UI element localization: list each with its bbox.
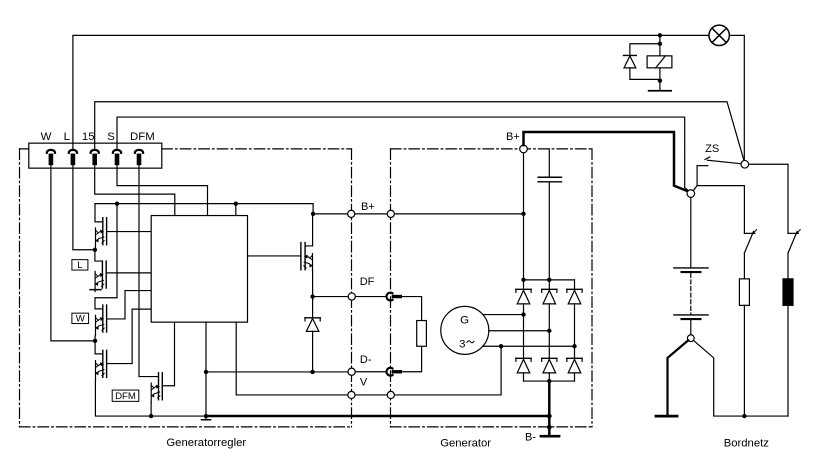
wire switch contact to battery node xyxy=(693,166,697,191)
svg-text:V: V xyxy=(360,377,368,389)
connector plug DF generator xyxy=(355,293,421,321)
svg-text:15: 15 xyxy=(82,131,95,143)
diode rectifier lower 1 xyxy=(516,315,531,382)
svg-text:Generatorregler: Generatorregler xyxy=(166,437,246,449)
Generatorregler dash-dot boundary box xyxy=(20,149,352,427)
node junction B+ rail / Q6 drain xyxy=(311,212,315,216)
wire load1 to return rail xyxy=(743,305,745,416)
battery G1 xyxy=(674,197,708,334)
terminal circle DF xyxy=(348,293,355,300)
svg-text:Bordnetz: Bordnetz xyxy=(724,438,770,450)
wire internal supply rail y203 xyxy=(95,204,313,214)
load2 block xyxy=(783,279,793,306)
node junction B- rail cross xyxy=(547,414,552,419)
node junction phase3 col3 xyxy=(572,344,576,348)
node junction bus col1 xyxy=(521,278,525,282)
resistor load1 xyxy=(739,279,749,306)
wire L terminal down to Q1 source node xyxy=(73,165,95,250)
wire Q6 drain up to B+ node xyxy=(305,214,313,246)
terminal circle D- xyxy=(348,368,355,375)
node junction star point V tap xyxy=(499,344,503,348)
terminal plug 15 xyxy=(91,150,99,165)
node junction minus bus B- drop xyxy=(547,379,551,383)
terminal circle B+ generator top xyxy=(520,145,528,153)
diode rectifier lower 2 xyxy=(542,331,557,381)
wire Q4 source down to ground rail xyxy=(95,381,206,416)
wire Q5 source down to rail xyxy=(150,403,152,416)
diode V1 across relay coil xyxy=(624,44,660,80)
svg-text:B+: B+ xyxy=(361,201,375,213)
generator G with 3~ xyxy=(441,306,489,354)
wire rail to Q1 gate xyxy=(95,204,103,222)
diode rectifier upper 1 xyxy=(516,280,531,315)
node junction rail-IC pin xyxy=(234,201,238,205)
switch load1 xyxy=(744,230,756,279)
svg-text:B+: B+ xyxy=(506,131,520,143)
node junction diode branch xyxy=(658,42,662,46)
terminal circle V generator border xyxy=(387,391,394,398)
ground stub IC pin xyxy=(202,419,211,421)
ground rail thick D- to B- xyxy=(206,415,549,418)
transistor Q2 (lamp driver) xyxy=(95,261,107,292)
terminal plug W xyxy=(47,150,55,165)
relay coil K xyxy=(647,56,672,68)
wire battery rail to load1 xyxy=(697,186,744,234)
wire IC V pin down and right to V terminal xyxy=(236,322,501,395)
wire IC ground pin down through D- to rail xyxy=(205,322,207,419)
indicator lamp H1 xyxy=(709,25,729,45)
wire 15 terminal down to IC pin xyxy=(95,165,175,215)
node junction relay top xyxy=(658,33,662,37)
ground symbol battery xyxy=(656,415,677,418)
node junction load1 return xyxy=(742,414,746,418)
boxed label L xyxy=(72,260,88,271)
node junction IC pin / D- line xyxy=(204,370,208,374)
svg-text:W: W xyxy=(41,131,52,143)
diode rectifier lower 3 xyxy=(567,346,582,381)
wire W terminal down to Q4 source node xyxy=(51,165,95,341)
wire Q1 source node to Q2 gate xyxy=(95,250,103,261)
wire S terminal up loop down right side xyxy=(117,117,689,191)
wire IC gate-drive pin to Q6 gate xyxy=(248,255,301,257)
node junction IC pin / ground rail xyxy=(204,414,208,418)
terminal circle V regulator border xyxy=(348,391,355,398)
node junction phase1 col1 xyxy=(521,312,525,316)
wire rectifier minus bus xyxy=(524,380,575,382)
wire W node to Q4 gate xyxy=(95,341,103,354)
svg-text:L: L xyxy=(77,260,83,271)
wire DFM terminal down to Q5 gate xyxy=(139,165,159,376)
wire B+ vertical inside generator xyxy=(523,153,525,280)
svg-text:DFM: DFM xyxy=(115,391,136,402)
node junction L wire / Q1 source xyxy=(93,248,97,252)
wire S terminal down to IC pin xyxy=(117,165,208,215)
terminal circle B+ regulator border xyxy=(348,210,355,217)
wire B+ thick feed to battery node xyxy=(524,132,689,192)
transistor Q3 (W driver upper) xyxy=(95,305,107,336)
wire stator phase 2 xyxy=(489,330,550,332)
svg-text:D-: D- xyxy=(360,354,372,366)
node junction DF / diode xyxy=(310,294,314,298)
resistor field winding rotor xyxy=(417,321,427,347)
wire L terminal up and over to lamp/relay node xyxy=(73,35,709,148)
transistor Q4 (W driver lower) xyxy=(95,350,107,381)
wire 15 terminal up loop to ZS switch node xyxy=(95,102,744,161)
node junction bus col2 xyxy=(547,278,551,282)
node junction diode / D- line xyxy=(310,370,314,374)
diode V2 freewheel DF to D- xyxy=(305,297,320,372)
wire lamp right lead down to ZS node xyxy=(729,35,744,160)
wire Q6 source down to DF node xyxy=(312,271,314,297)
node junction Q5 source on rail xyxy=(149,414,153,418)
terminal plug DFM xyxy=(135,150,143,165)
wire DF node to DF terminal xyxy=(313,296,352,298)
boxed label DFM xyxy=(112,390,139,402)
ground stub Q2 source xyxy=(90,289,101,291)
node junction phase2 col2 xyxy=(547,329,551,333)
transistor Q1 (L driver) xyxy=(95,218,107,249)
wire Q5 drain up to IC pin xyxy=(162,322,174,386)
terminal plug L xyxy=(69,150,77,165)
op-amp U1 regulator IC box xyxy=(151,216,247,323)
node junction rail-Q1drain branch xyxy=(115,201,119,205)
capacitor C1 suppression xyxy=(538,149,561,280)
connector plug D- generator xyxy=(355,346,421,375)
wire relay branch vertical xyxy=(659,35,661,56)
diode rectifier upper 3 xyxy=(567,280,582,346)
wire Q2 drain to IC xyxy=(107,272,151,274)
wire Q4 drain to IC xyxy=(107,309,152,363)
svg-text:ZS: ZS xyxy=(705,143,719,155)
wire Q3 source down to W node xyxy=(94,336,96,341)
svg-text:Generator: Generator xyxy=(440,438,491,450)
terminal circle B+ generator border xyxy=(387,210,394,217)
svg-text:DF: DF xyxy=(360,276,375,288)
wire rectifier plus bus xyxy=(524,279,575,281)
switch ZS xyxy=(697,157,741,166)
svg-text:L: L xyxy=(64,131,70,143)
wire relay coil bottom xyxy=(659,68,661,91)
svg-text:DFM: DFM xyxy=(130,131,155,143)
wire IC top pin from rail xyxy=(235,204,237,216)
wire stator phase 1 xyxy=(483,314,524,316)
terminal plug S xyxy=(113,150,121,165)
transistor Q5 (DFM driver) xyxy=(151,373,163,404)
svg-text:W: W xyxy=(76,314,86,325)
node junction relay bottom xyxy=(658,78,662,82)
node circle battery minus xyxy=(687,335,694,342)
svg-text:3: 3 xyxy=(459,338,465,350)
wire B+ line regulator to generator xyxy=(313,213,523,215)
svg-text:G: G xyxy=(460,315,469,327)
wire Q3 drain to IC xyxy=(107,291,151,319)
transistor Q6 output stage xyxy=(301,243,313,271)
wire battery minus to ground thick xyxy=(668,340,689,415)
boxed label W xyxy=(72,313,89,324)
wire rail branch down to Q3 gate xyxy=(95,204,117,309)
wire B- thick drop to ground xyxy=(548,381,551,435)
svg-text:S: S xyxy=(107,131,115,143)
node junction B+ line into generator xyxy=(521,212,525,216)
svg-text:B-: B- xyxy=(525,432,536,444)
terminal box of regulator xyxy=(29,143,162,168)
wire Q1 drain to IC xyxy=(107,231,152,233)
switch load2 xyxy=(788,230,800,279)
wire battery minus to load return rail xyxy=(693,340,788,416)
node junction W wire / Q4 xyxy=(93,339,97,343)
node circle ZS switch node xyxy=(741,160,749,168)
Generator dash-dot boundary box xyxy=(391,149,593,427)
ground symbol relay xyxy=(649,90,671,92)
node circle ZS battery node xyxy=(687,190,695,198)
wire load2 to return rail xyxy=(787,305,789,416)
wire switched rail to load2 xyxy=(749,164,788,233)
node junction B- border cross xyxy=(547,425,552,430)
diode rectifier upper 2 xyxy=(542,280,557,331)
wire D- line IC to D- terminal xyxy=(206,371,352,373)
wire stator phase 3 xyxy=(483,345,575,347)
ground symbol B- xyxy=(541,435,559,438)
